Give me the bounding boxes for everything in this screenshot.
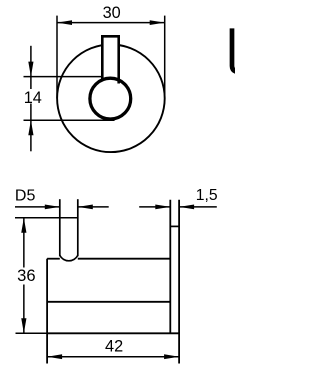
dim D5: right arrowhead (points left)	[78, 205, 93, 210]
big circle (hook body, D30)	[57, 45, 165, 153]
dim 14: upper dimension line segment	[30, 46, 32, 89]
svg-text:30: 30	[103, 4, 121, 22]
body top edge right of peg	[78, 258, 171, 260]
body top edge left of peg	[47, 258, 60, 260]
peg rectangle (top stud)	[102, 36, 118, 83]
dim 42: right arrowhead	[164, 354, 179, 359]
svg-text:1,5: 1,5	[196, 187, 218, 204]
peg right side line (with D5 extension above)	[77, 199, 79, 256]
dim D5: left arrowhead (points right)	[45, 205, 60, 210]
dim 1,5: left arrowhead (points right)	[155, 205, 170, 210]
body outline: left edge (continues down as dim 42 extension)	[46, 259, 48, 364]
wall plate top edge	[170, 225, 179, 227]
dim 1,5: left dimension line segment	[139, 206, 170, 208]
dim 42: dimension line	[47, 356, 179, 358]
svg-text:36: 36	[17, 266, 35, 285]
dim D5: left dimension line segment	[15, 206, 60, 208]
dim 30: right arrowhead	[150, 20, 165, 25]
peg top edge / dim 36 top extension line	[15, 217, 78, 219]
body bottom edge	[47, 332, 179, 334]
dim 36: vertical dimension line upper segment	[23, 218, 25, 268]
inner circle (hook pin, D14)	[90, 78, 131, 119]
dim 14: lower arrowhead (points up)	[28, 120, 33, 135]
dim 30: right extension line	[164, 16, 166, 99]
svg-text:42: 42	[105, 337, 123, 355]
dim D5: right dimension line segment	[78, 206, 109, 208]
dim 30: left extension line	[56, 16, 58, 99]
wall plate left face (with 1,5 extension above)	[169, 200, 171, 333]
dim 14: bottom extension line	[24, 119, 115, 121]
peg bottom fillet arc	[60, 255, 78, 260]
peg left side line (with D5 extension above)	[59, 199, 61, 256]
peg rectangle white infill (hides big-circle arc)	[102, 36, 118, 79]
dim 14: upper arrowhead (points down)	[28, 62, 33, 77]
dim 30: dimension line	[57, 22, 165, 24]
cropped black product-photo edge at top right	[232, 28, 250, 72]
dim 36: bottom arrowhead (points down)	[21, 318, 26, 333]
dim 14: lower dimension line segment	[30, 104, 32, 152]
dim 14: top extension line	[24, 76, 104, 78]
dim 42: left arrowhead	[47, 354, 62, 359]
dim 36: bottom extension line	[16, 332, 48, 334]
svg-text:D5: D5	[15, 187, 36, 204]
body inner line	[47, 301, 170, 303]
dim 30: left arrowhead	[57, 20, 72, 25]
dim 36: top arrowhead (points up)	[21, 218, 26, 233]
wall plate right face (continues down as dim 42 extension)	[178, 200, 180, 364]
dim 1,5: right arrowhead (points left)	[179, 205, 194, 210]
dim 1,5: right dimension line segment	[179, 206, 217, 208]
dim 36: vertical dimension line lower segment	[23, 285, 25, 334]
svg-text:14: 14	[24, 89, 42, 107]
